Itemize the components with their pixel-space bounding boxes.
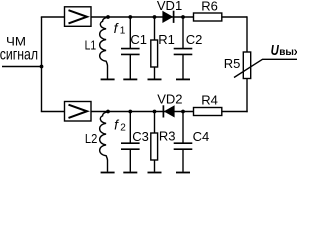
ground (R3) bbox=[148, 172, 162, 174]
svg-text:C4: C4 bbox=[193, 129, 210, 144]
amplifier A1 box bbox=[65, 7, 92, 27]
node R3 junction bbox=[153, 110, 157, 114]
amplifier A1 chevron bbox=[69, 10, 88, 23]
svg-text:L2: L2 bbox=[85, 131, 97, 146]
ground (L2) bbox=[101, 172, 115, 174]
svg-text:C3: C3 bbox=[132, 129, 149, 144]
ground (C3) bbox=[123, 172, 137, 174]
wire R4 to right vertical bbox=[222, 111, 248, 113]
svg-text:C1: C1 bbox=[130, 32, 147, 47]
diode VD1 bbox=[162, 11, 173, 23]
svg-text:VD2: VD2 bbox=[157, 92, 182, 107]
node L2 junction bbox=[106, 110, 110, 114]
capacitor C1 bbox=[121, 17, 140, 79]
svg-text:VD1: VD1 bbox=[157, 0, 182, 13]
ground (R1) bbox=[148, 78, 162, 80]
svg-text:f: f bbox=[114, 20, 120, 36]
inductor L2 bbox=[100, 112, 115, 173]
svg-text:C2: C2 bbox=[186, 32, 203, 47]
ground (L1) bbox=[101, 78, 115, 80]
svg-text:f: f bbox=[114, 117, 120, 133]
capacitor C2 bbox=[174, 17, 193, 79]
svg-text:U: U bbox=[271, 43, 280, 59]
diode VD2 bbox=[163, 105, 174, 117]
svg-text:R4: R4 bbox=[201, 92, 218, 107]
svg-text:L1: L1 bbox=[85, 38, 97, 53]
node C2 junction bbox=[181, 15, 185, 19]
wire right vertical down to R5 bbox=[246, 16, 248, 52]
node L1 junction bbox=[106, 15, 110, 19]
wire input horizontal bbox=[2, 66, 42, 68]
wire amplifier A2 output to R4 bbox=[91, 111, 194, 113]
wire R5 bottom to bottom branch bbox=[246, 79, 248, 113]
svg-text:R1: R1 bbox=[158, 32, 175, 47]
ground (C1) bbox=[123, 78, 137, 80]
wire R6 to right vertical bbox=[222, 16, 247, 18]
capacitor C4 bbox=[174, 112, 193, 173]
resistor R1 bbox=[148, 17, 162, 79]
node input junction bbox=[40, 65, 44, 69]
capacitor C3 bbox=[121, 112, 140, 173]
svg-text:вых: вых bbox=[279, 47, 297, 58]
resistor R5 (variable) bbox=[234, 52, 297, 79]
node R1 junction bbox=[153, 15, 157, 19]
wire input split vertical bbox=[41, 17, 43, 112]
wire bottom branch to amplifier A2 bbox=[41, 111, 65, 113]
ground (C2) bbox=[176, 78, 190, 80]
svg-text:1: 1 bbox=[120, 25, 126, 36]
resistor R3 bbox=[148, 112, 162, 173]
amplifier A2 box bbox=[65, 102, 92, 122]
svg-text:R6: R6 bbox=[201, 0, 218, 13]
amplifier A2 chevron bbox=[69, 105, 88, 118]
wire R5 wiper diagonal bbox=[234, 59, 297, 77]
svg-text:R5: R5 bbox=[224, 56, 241, 71]
inductor L1 bbox=[100, 17, 115, 79]
node C3 junction bbox=[128, 110, 132, 114]
svg-text:2: 2 bbox=[120, 123, 126, 134]
resistor R6 bbox=[194, 13, 222, 21]
node C1 junction bbox=[128, 15, 132, 19]
wire top branch to amplifier A1 bbox=[41, 16, 65, 18]
node C4 junction bbox=[181, 110, 185, 114]
svg-text:сигнал: сигнал bbox=[0, 47, 38, 64]
ground (C4) bbox=[176, 172, 190, 174]
resistor R4 bbox=[194, 108, 222, 116]
wire amplifier A1 output to R6 bbox=[91, 16, 194, 18]
svg-text:R3: R3 bbox=[159, 128, 176, 143]
